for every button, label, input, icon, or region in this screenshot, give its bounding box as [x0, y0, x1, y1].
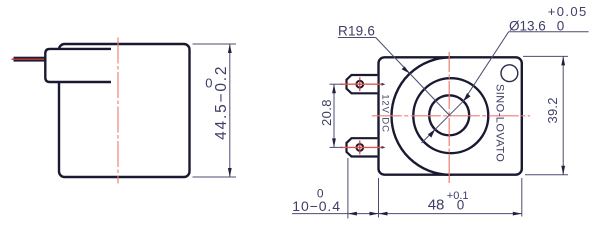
- dim 39.2 extension bottom: [525, 174, 568, 176]
- terminal tab upper: [347, 75, 378, 93]
- dia 13.6 underline: [509, 31, 589, 33]
- dim 39.2 dimension line: [562, 56, 564, 174]
- terminal tab lower: [347, 138, 378, 156]
- arrow up: [228, 44, 232, 53]
- dim 20.8 tick lower: [330, 146, 343, 148]
- dim 39.2 extension top: [523, 55, 568, 57]
- R19.6 leader: [376, 38, 451, 117]
- R19.6 arrow on outer circle: [402, 66, 410, 73]
- upper tab centerline horizontal: [341, 83, 383, 85]
- coil body: [59, 44, 190, 177]
- svg-text:+0.1: +0.1: [447, 190, 469, 202]
- dim 39.2 arrow up: [561, 56, 565, 65]
- dim 44.5 extension line top: [193, 43, 237, 45]
- svg-text:0: 0: [317, 187, 324, 201]
- dim 20.8 dimension line: [333, 84, 335, 147]
- svg-text:48: 48: [428, 197, 445, 214]
- svg-text:20.8: 20.8: [319, 99, 334, 126]
- coil body front: [379, 57, 522, 174]
- dim 10 arrow right: [370, 212, 379, 216]
- svg-text:44.5−0.2: 44.5−0.2: [213, 65, 230, 140]
- svg-text:0: 0: [557, 18, 565, 33]
- dia 13.6 leader upper: [463, 32, 508, 102]
- dim 44.5 extension line bottom: [193, 176, 237, 178]
- lower tab centerline horizontal: [341, 146, 383, 148]
- dim 44.5 dimension line: [229, 44, 231, 177]
- dim 20.8 arrow down: [332, 138, 336, 147]
- dia 13.6 arrow lower (tip on inner circle): [428, 129, 435, 137]
- svg-text:+0.05: +0.05: [548, 4, 588, 19]
- lower tab centerline end arrow: [382, 146, 386, 149]
- R19.6 underline: [338, 37, 376, 39]
- upper tab centerline end arrow: [382, 83, 386, 86]
- bottom extension line tab end: [347, 158, 349, 219]
- wire centerline: [12, 58, 50, 60]
- svg-text:39.2: 39.2: [545, 97, 560, 123]
- svg-text:SINO-LOVATO: SINO-LOVATO: [493, 84, 505, 162]
- svg-text:Ø13.6: Ø13.6: [509, 18, 546, 33]
- dim 10 dimension line with left tail: [292, 213, 379, 215]
- upper tab hole centerline vertical: [359, 77, 361, 91]
- dim 48 arrow left: [379, 212, 388, 216]
- connector tab (left view): [45, 49, 111, 82]
- dim 10 arrow left: [348, 212, 357, 216]
- body vertical centerline: [117, 38, 119, 184]
- dim 48 dimension line: [379, 213, 522, 215]
- bottom extension line body left: [378, 178, 380, 218]
- terminal hole lower: [356, 144, 363, 151]
- bottom extension line body right: [521, 178, 523, 217]
- small mounting circle top right: [501, 65, 518, 82]
- main vertical centerline: [448, 52, 450, 184]
- dim 39.2 arrow down: [561, 166, 565, 175]
- terminal hole upper: [356, 81, 363, 88]
- main horizontal centerline: [372, 115, 530, 117]
- dia 13.6 chord line: [422, 101, 464, 143]
- dim 20.8 tick upper: [330, 83, 343, 85]
- svg-text:0: 0: [205, 76, 212, 91]
- outer boss arc R19.6: [392, 57, 452, 174]
- middle circle: [413, 78, 488, 153]
- dia 13.6 arrow upper (tip on inner circle): [463, 93, 470, 101]
- lower tab hole centerline vertical: [359, 141, 361, 155]
- dim 20.8 arrow up: [332, 84, 336, 93]
- dim 48 arrow right: [513, 212, 522, 216]
- wire lead: [14, 57, 46, 62]
- arrow down: [228, 168, 232, 177]
- inner circle (Ø13.6 hole): [429, 95, 469, 135]
- svg-text:12V DC: 12V DC: [379, 94, 390, 133]
- svg-text:R19.6: R19.6: [338, 23, 375, 38]
